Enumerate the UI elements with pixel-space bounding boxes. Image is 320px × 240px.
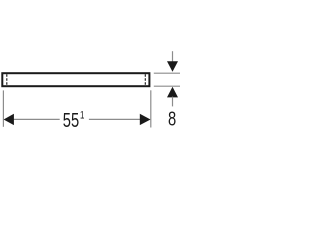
extension line bottom (bar bottom, right side) (154, 85, 180, 87)
label 551 (63, 108, 85, 131)
dimension line 551 right segment (89, 118, 141, 120)
svg-text:8: 8 (168, 107, 176, 130)
dimension line 8 lower segment (172, 97, 174, 107)
arrowhead left (4, 114, 14, 125)
dimension line 8 upper segment (172, 51, 174, 62)
extension line top (bar top, right side) (154, 72, 180, 74)
label 8 (168, 107, 176, 130)
arrowhead right (140, 114, 151, 125)
dimension line 551 left segment (13, 118, 60, 120)
extension line left (below bar) (2, 90, 4, 126)
svg-text:1: 1 (80, 110, 84, 123)
extension line right (below bar) (150, 90, 152, 127)
arrowhead up (167, 87, 178, 98)
bar body (profile outline) (2, 73, 149, 86)
dashed hidden edge right (144, 74, 146, 85)
dashed hidden edge left (6, 74, 8, 85)
arrowhead down (167, 61, 178, 72)
svg-text:55: 55 (63, 108, 79, 131)
